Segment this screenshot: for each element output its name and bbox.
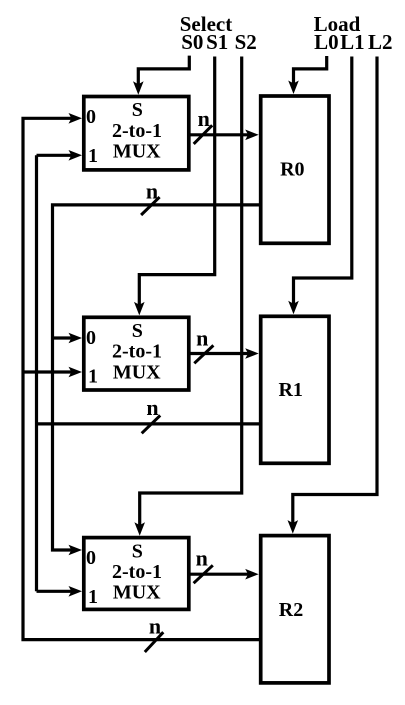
svg-text:MUX: MUX: [113, 361, 161, 383]
svg-text:R1: R1: [278, 379, 302, 401]
svg-text:0: 0: [86, 327, 96, 349]
svg-text:R0: R0: [280, 158, 304, 180]
svg-text:MUX: MUX: [113, 141, 161, 163]
svg-text:R2: R2: [279, 599, 303, 621]
svg-text:1: 1: [88, 145, 98, 167]
svg-text:MUX: MUX: [113, 582, 161, 604]
svg-text:L1: L1: [340, 30, 365, 54]
svg-text:L0: L0: [314, 30, 339, 54]
svg-text:n: n: [196, 545, 208, 570]
svg-text:S: S: [132, 540, 143, 562]
svg-text:n: n: [146, 395, 158, 420]
svg-text:S1: S1: [206, 30, 228, 54]
svg-text:n: n: [196, 325, 208, 350]
svg-text:L2: L2: [368, 30, 393, 54]
svg-text:S2: S2: [235, 30, 257, 54]
svg-text:0: 0: [86, 106, 96, 128]
svg-text:2-to-1: 2-to-1: [112, 561, 162, 583]
svg-text:2-to-1: 2-to-1: [112, 341, 162, 363]
svg-text:n: n: [198, 106, 210, 131]
svg-text:0: 0: [86, 547, 96, 569]
svg-text:1: 1: [88, 366, 98, 388]
svg-text:2-to-1: 2-to-1: [112, 120, 162, 142]
svg-text:S0: S0: [181, 30, 203, 54]
svg-text:1: 1: [88, 586, 98, 608]
svg-text:S: S: [132, 99, 143, 121]
svg-text:S: S: [132, 320, 143, 342]
